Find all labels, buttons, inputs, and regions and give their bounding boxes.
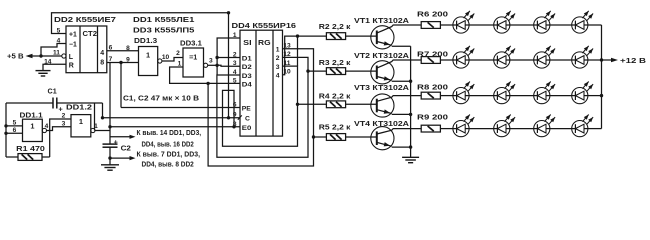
- svg-text:SI: SI: [243, 38, 251, 47]
- wire R3 row: [308, 70, 326, 72]
- wire VT2 emitter: [377, 76, 411, 81]
- svg-text:5: 5: [233, 78, 237, 85]
- node emitter rail VT2: [409, 80, 412, 83]
- pin 2 number DD1.2: [62, 113, 66, 120]
- pin5 number DD4: [233, 78, 237, 85]
- pin 1 number DD1.2: [94, 123, 98, 130]
- svg-text:11: 11: [53, 49, 60, 56]
- label out 3: [276, 64, 280, 71]
- label DD1.3: [134, 38, 157, 45]
- svg-text:3: 3: [276, 64, 280, 71]
- node E0 rail at Q3 branch: [108, 125, 111, 128]
- wire Q3 weight8 branch to E0 rail: [109, 63, 111, 127]
- label 1 inside DD1.1: [30, 122, 34, 131]
- wire LED link row1 seg3: [550, 24, 572, 26]
- label R3: [319, 58, 351, 67]
- wire DD1.1 in6: [6, 132, 23, 134]
- note to pin7 line1: [137, 152, 201, 159]
- wire DD2 pin4 from +5V node: [41, 44, 66, 57]
- LED HL4: [572, 11, 593, 33]
- wire pin11 spur to R2 row: [297, 36, 299, 66]
- pin2 number DD4: [233, 52, 237, 59]
- node +12V rail row3: [600, 94, 603, 97]
- wire Q3 branch down to PE rail: [120, 63, 122, 108]
- label R1: [16, 144, 45, 153]
- label SI: [243, 38, 251, 47]
- svg-text:R: R: [69, 63, 74, 70]
- LED HL11: [534, 82, 555, 104]
- wire VT1 collector: [377, 25, 421, 33]
- note C1 C2 values: [123, 93, 200, 102]
- label DD3.1: [180, 40, 202, 47]
- note to pin7 line2: [142, 162, 194, 169]
- wire DD2 pin7 Q3 to DD1.3 pin9: [107, 62, 139, 64]
- wire R5 row: [314, 136, 327, 138]
- wire VT3 emitter: [377, 109, 411, 114]
- label out 2: [276, 55, 280, 62]
- pin 14 number DD2: [44, 58, 52, 65]
- svg-text:5: 5: [13, 120, 17, 127]
- LED HL14: [494, 115, 515, 137]
- resistor R2 2.2k: [326, 33, 345, 40]
- note to pin14 line1: [137, 130, 202, 137]
- svg-text:К выв. 14 DD1, DD3,: К выв. 14 DD1, DD3,: [137, 130, 202, 137]
- IC DD4 register box: [240, 30, 283, 136]
- power +5V arrow: [26, 54, 42, 59]
- svg-text:9: 9: [126, 56, 130, 63]
- label C1: [48, 86, 57, 95]
- node +5V junction: [39, 54, 42, 57]
- wire R1 right: [42, 156, 50, 158]
- pin1 number DD4: [233, 32, 237, 39]
- junction clock top corner: [227, 11, 230, 14]
- svg-text:L: L: [69, 54, 74, 61]
- svg-text:E0: E0: [242, 125, 252, 132]
- label DD4 K555IR16: [232, 21, 297, 30]
- pin13 number DD4: [283, 42, 291, 49]
- label -1: [69, 42, 77, 49]
- gate DD1.3 box: [139, 47, 158, 76]
- label D2: [242, 64, 252, 71]
- label DD1.2: [66, 104, 92, 111]
- wire pin11 to R4 and feedback U1: [223, 66, 298, 146]
- LED HL5: [453, 46, 474, 68]
- svg-text:8: 8: [100, 60, 104, 67]
- label R9: [417, 114, 448, 121]
- svg-text:D4: D4: [242, 82, 252, 89]
- node feedback to E0 rail: [232, 125, 235, 128]
- wire LED link row4 seg3: [550, 128, 572, 130]
- svg-text:R8 200: R8 200: [417, 85, 448, 92]
- label R7: [417, 52, 448, 59]
- svg-text:VT2 КТ3102А: VT2 КТ3102А: [354, 51, 409, 60]
- label C2: [121, 143, 131, 152]
- label VT3: [354, 83, 409, 92]
- LED HL15: [534, 115, 555, 137]
- note to pin14 line2: [142, 141, 194, 148]
- label DD1.1: [20, 113, 43, 120]
- svg-text:2: 2: [276, 55, 280, 62]
- wire R7 to LED row: [440, 59, 453, 61]
- label out 1: [276, 47, 280, 54]
- resistor R4 2.2k: [326, 101, 345, 108]
- svg-text:1: 1: [233, 32, 237, 39]
- resistor R3 2.2k: [326, 68, 345, 75]
- svg-text:D3: D3: [242, 73, 252, 80]
- pin 11 number DD2: [53, 49, 60, 56]
- label 1 inside DD1.2: [79, 117, 83, 126]
- wire LED link row3 seg2: [510, 95, 534, 97]
- svg-text:1: 1: [30, 122, 34, 131]
- resistor R7 200: [421, 57, 440, 64]
- LED HL3: [534, 11, 555, 33]
- wire R8 to LED row: [440, 95, 453, 97]
- resistor R1 470: [18, 154, 42, 161]
- svg-text:R5 2,2 к: R5 2,2 к: [319, 122, 351, 131]
- LED HL9: [453, 82, 474, 104]
- power +12V arrow: [602, 58, 619, 63]
- wire LED link row2 seg2: [510, 59, 534, 61]
- wire emitter ground rail: [410, 46, 412, 157]
- wire R3 to VT2 base: [346, 70, 377, 72]
- dynamic input tick at C pin: [238, 115, 242, 119]
- wire C2 to ground: [109, 158, 111, 165]
- svg-text:1: 1: [79, 117, 83, 126]
- pin3 number DD4: [233, 60, 237, 67]
- pin6 number DD4: [233, 101, 237, 108]
- pin 10 number DD1.3: [162, 54, 170, 61]
- wire C1 branch to DD1.2 out: [94, 103, 96, 131]
- capacitor C2: [103, 144, 118, 158]
- wire C1 drop to clock rail: [102, 103, 104, 118]
- wire PE rail: [121, 107, 240, 109]
- wire VT2 collector: [377, 60, 421, 68]
- pin 7 number DD2: [109, 56, 113, 63]
- svg-text:+: +: [114, 138, 118, 147]
- transistor VT4: [371, 127, 394, 150]
- label DD2 K555IE7: [54, 15, 116, 24]
- svg-text:−1: −1: [69, 42, 77, 49]
- svg-text:3: 3: [209, 58, 213, 65]
- label RG: [258, 38, 271, 47]
- svg-text:DD3 К555ЛП5: DD3 К555ЛП5: [133, 25, 194, 34]
- label 1 inside DD1.3: [146, 51, 150, 60]
- svg-text:1: 1: [146, 51, 150, 60]
- wire LED link row1 seg1: [469, 24, 494, 26]
- svg-text:VT1 КТ3102А: VT1 КТ3102А: [354, 16, 409, 25]
- wire R2 to VT1 base: [346, 35, 377, 37]
- svg-text:3: 3: [233, 60, 237, 67]
- label +5 V: [7, 52, 24, 61]
- svg-text:DD1 К555ЛЕ1: DD1 К555ЛЕ1: [133, 15, 194, 24]
- svg-text:R4 2,2 к: R4 2,2 к: [319, 92, 351, 101]
- LED HL10: [494, 82, 515, 104]
- svg-text:R9 200: R9 200: [417, 114, 448, 121]
- node DD3.1 out junction: [215, 64, 218, 67]
- svg-text:R7 200: R7 200: [417, 52, 448, 59]
- transistor VT1: [371, 26, 394, 49]
- label R2: [319, 22, 351, 31]
- svg-text:2: 2: [176, 50, 180, 57]
- ground at DD2 R pin: [36, 71, 51, 76]
- label C1 plus: [59, 105, 63, 114]
- LED HL16: [572, 115, 593, 137]
- wire DD1.2 in2 from R1: [50, 119, 71, 157]
- svg-text:RG: RG: [258, 38, 271, 47]
- wire LED row3 to +12V rail: [588, 95, 602, 97]
- label DD2 out weight 4: [100, 50, 104, 57]
- node pin11 at R4 row: [296, 103, 299, 106]
- svg-text:3: 3: [62, 120, 66, 127]
- wire LED link row3 seg1: [469, 95, 494, 97]
- wire C2 stem upper: [109, 127, 111, 144]
- LED HL2: [494, 11, 515, 33]
- label R: [69, 63, 74, 70]
- node C2 ground junction: [108, 156, 111, 159]
- svg-text:4: 4: [45, 123, 49, 130]
- label =1 inside DD3.1: [189, 53, 197, 62]
- label +12 V: [620, 56, 646, 65]
- pin 3 number DD3.1: [209, 58, 213, 65]
- gate DD3.1 box: [183, 48, 204, 77]
- node DD1.1 in6 junction: [4, 132, 7, 135]
- ground at emitter rail: [402, 157, 419, 162]
- wire E0 rail to DD4 E0: [110, 126, 240, 128]
- wire data vertical to SI: [217, 38, 240, 65]
- wire DD2 pin11 L input: [41, 55, 62, 57]
- inversion circle DD1.3 output: [158, 59, 162, 63]
- label D3: [242, 73, 252, 80]
- gate DD1.1 box: [23, 119, 43, 141]
- label R5: [319, 122, 351, 131]
- svg-text:DD4, выв. 8 DD2: DD4, выв. 8 DD2: [142, 162, 194, 169]
- label L: [69, 54, 74, 61]
- wire clock rail to DD4 C: [103, 117, 241, 119]
- inversion circle DD1.2 output: [91, 128, 95, 132]
- svg-text:D1: D1: [242, 56, 252, 63]
- svg-text:R6 200: R6 200: [417, 11, 448, 18]
- node D1 tap: [215, 56, 218, 59]
- wire DD1.1 out to DD1.2 in3: [47, 127, 72, 131]
- node R2 row junction: [296, 34, 299, 37]
- svg-text:4: 4: [276, 73, 280, 80]
- node +12V rail row2: [600, 58, 603, 61]
- wire DD3.1 pin1 feedback path: [170, 67, 240, 83]
- svg-text:DD1.1: DD1.1: [20, 113, 43, 120]
- wire DD1.2 out: [95, 130, 110, 132]
- svg-text:DD2 К555ИЕ7: DD2 К555ИЕ7: [54, 15, 116, 24]
- pin4 number DD4: [233, 69, 237, 76]
- svg-text:VT4 КТ3102А: VT4 КТ3102А: [354, 119, 409, 128]
- wire LED link row4 seg1: [469, 128, 494, 130]
- node pin13 at R5 row: [312, 135, 315, 138]
- LED HL12: [572, 82, 593, 104]
- svg-text:1: 1: [178, 60, 182, 67]
- pin 2 number DD3.1: [176, 50, 180, 57]
- wire VT4 emitter: [377, 142, 411, 147]
- wire LED link row1 seg2: [510, 24, 534, 26]
- wire clock top route to DD2 pin 5: [52, 13, 229, 118]
- label +1: [69, 32, 77, 39]
- wire C1 right: [57, 102, 103, 104]
- inversion circle DD1.1 output: [42, 128, 46, 132]
- wire LED link row2 seg1: [469, 59, 494, 61]
- wire LED link row4 seg2: [510, 128, 534, 130]
- ground at C2: [101, 165, 119, 170]
- wire LED row4 to +12V rail: [588, 128, 602, 130]
- wire LED link row3 seg3: [550, 95, 572, 97]
- label C: [245, 116, 250, 123]
- resistor R9 200: [421, 125, 440, 132]
- wire R4 to VT3 base: [346, 103, 377, 105]
- pin9 number DD4: [233, 112, 237, 119]
- wire pin10 to R2: [283, 36, 327, 75]
- node emitter rail VT4: [409, 145, 412, 148]
- pin10 number DD4: [283, 69, 291, 76]
- svg-text:D2: D2: [242, 64, 252, 71]
- LED HL6: [494, 46, 515, 68]
- node Q3 branch junction: [119, 61, 122, 64]
- LED HL1: [453, 11, 474, 33]
- svg-text:5: 5: [57, 27, 61, 34]
- capacitor C1: [53, 98, 57, 109]
- power note arrow 1: [110, 135, 136, 139]
- label E0: [242, 125, 252, 132]
- pin 5 number DD2: [57, 27, 61, 34]
- pin 5 number DD1.1: [13, 120, 17, 127]
- inversion circle DD2 L pin: [62, 54, 66, 58]
- svg-text:DD3.1: DD3.1: [180, 40, 202, 47]
- label VT2: [354, 51, 409, 60]
- svg-text:7: 7: [109, 56, 113, 63]
- label R6: [417, 11, 448, 18]
- label DD1 K555LE1: [133, 15, 194, 24]
- pin11 number DD4: [284, 60, 291, 67]
- pin8 number DD4: [233, 121, 237, 128]
- pin12 number DD4: [283, 51, 291, 58]
- node pin12 at R3 row: [306, 69, 309, 72]
- wire DD2 pin6 Q2 to DD1.3 pin8: [107, 50, 139, 52]
- wire LED row2 to +12V rail: [588, 59, 602, 61]
- svg-text:2: 2: [233, 52, 237, 59]
- wire R9 to LED row: [440, 128, 453, 130]
- svg-text:+5 В: +5 В: [7, 52, 24, 61]
- wire LED row1 to +12V rail: [588, 24, 602, 26]
- node clock rail junction: [101, 116, 104, 119]
- LED HL7: [534, 46, 555, 68]
- LED HL8: [572, 46, 593, 68]
- svg-text:=1: =1: [189, 53, 197, 62]
- wire VT4 collector: [377, 129, 421, 134]
- wire +12V rail: [601, 25, 603, 129]
- pin 6 number DD2: [109, 44, 113, 51]
- svg-text:+1: +1: [69, 32, 77, 39]
- node feedback to D4 net: [206, 82, 209, 85]
- svg-text:C1, C2 47 мк × 10 В: C1, C2 47 мк × 10 В: [123, 93, 200, 102]
- pin 1 number DD3.1: [178, 60, 182, 67]
- svg-text:+12 В: +12 В: [620, 56, 646, 65]
- wire R1 left: [6, 156, 18, 158]
- wire LED link row2 seg3: [550, 59, 572, 61]
- label out 4: [276, 73, 280, 80]
- power note arrow 2: [110, 156, 136, 160]
- wire R4 row: [298, 103, 327, 105]
- svg-text:1: 1: [94, 123, 98, 130]
- gate DD1.2 box: [71, 115, 91, 137]
- wire VT1 emitter: [377, 41, 411, 46]
- label CT2: [83, 29, 98, 38]
- LED HL13: [453, 115, 474, 137]
- svg-text:CT2: CT2: [83, 29, 98, 38]
- svg-text:C1: C1: [48, 86, 57, 95]
- label R8: [417, 85, 448, 92]
- svg-text:1: 1: [276, 47, 280, 54]
- label PE: [242, 105, 251, 112]
- wire DD1.1 in5: [6, 125, 23, 127]
- svg-text:8: 8: [126, 45, 130, 52]
- wire DD1.3 out pin10 to DD3.1 pin2: [162, 58, 183, 62]
- wire data vertical down to D3 tap: [216, 65, 218, 75]
- node emitter rail VT3: [409, 113, 412, 116]
- IC DD2 counter box: [66, 26, 107, 73]
- transistor VT2: [371, 61, 394, 84]
- svg-text:10: 10: [162, 54, 170, 61]
- svg-text:6: 6: [109, 44, 113, 51]
- svg-text:DD4, выв. 16 DD2: DD4, выв. 16 DD2: [142, 141, 194, 148]
- wire to D2: [217, 64, 240, 67]
- wire DD2 pin14 R to ground: [43, 64, 66, 70]
- pin 4 number DD1.1: [45, 123, 49, 130]
- svg-text:К выв. 7 DD1, DD3,: К выв. 7 DD1, DD3,: [137, 152, 201, 159]
- wire R6 to LED row: [440, 24, 453, 26]
- wire VT3 collector: [377, 96, 421, 102]
- svg-text:DD1.2: DD1.2: [66, 104, 92, 111]
- pin 4 number DD2: [57, 37, 61, 44]
- label D1: [242, 56, 252, 63]
- svg-text:R3 2,2 к: R3 2,2 к: [319, 58, 351, 67]
- svg-text:VT3 КТ3102А: VT3 КТ3102А: [354, 83, 409, 92]
- wire pin13 to R5 and feedback U3: [208, 49, 313, 166]
- transistor VT3: [371, 94, 394, 117]
- node DD1.1 in5 junction: [4, 124, 7, 127]
- wire R5 to VT4 base: [346, 136, 377, 138]
- wire pin12 to R3 and feedback U2: [217, 57, 308, 157]
- wire to D1: [217, 57, 240, 59]
- label C2 plus: [114, 138, 118, 147]
- svg-text:C: C: [245, 116, 250, 123]
- label VT1: [354, 16, 409, 25]
- wire DD3.1 out pin3: [208, 64, 217, 66]
- resistor R5 2.2k: [326, 134, 345, 141]
- label DD2 out weight 8: [100, 60, 104, 67]
- label R4: [319, 92, 351, 101]
- wire C1 left: [6, 102, 53, 104]
- svg-text:R1 470: R1 470: [16, 144, 45, 153]
- inversion circle DD3.1 output: [204, 63, 208, 67]
- svg-text:R2 2,2 к: R2 2,2 к: [319, 22, 351, 31]
- svg-text:2: 2: [62, 113, 66, 120]
- pin 6 number DD1.1: [13, 127, 17, 134]
- label D4: [242, 82, 252, 89]
- pin 9 number DD1.3: [126, 56, 130, 63]
- label DD3 K555LP5: [133, 25, 194, 34]
- svg-text:DD1.3: DD1.3: [134, 38, 157, 45]
- svg-text:6: 6: [13, 127, 17, 134]
- pin 3 number DD1.2: [62, 120, 66, 127]
- wire osc node A vertical: [5, 103, 7, 157]
- label VT4: [354, 119, 409, 128]
- node clock top branch: [227, 116, 230, 119]
